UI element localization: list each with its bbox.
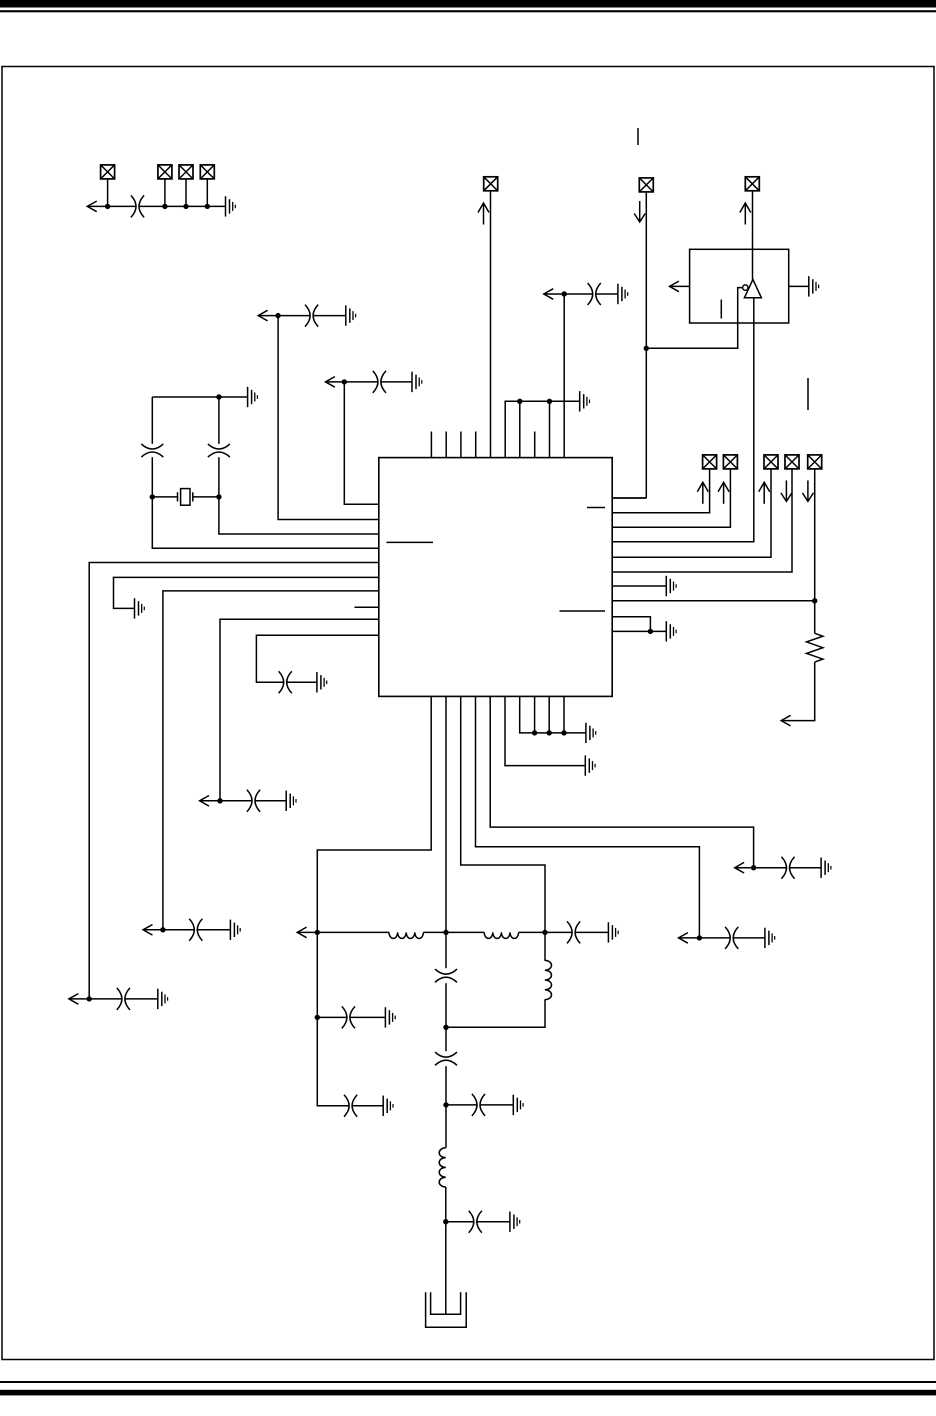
node RF2 bbox=[443, 930, 448, 935]
capacitor C5 bbox=[373, 371, 386, 393]
wire RF2 down b bbox=[445, 983, 447, 1051]
capacitor C6 bbox=[305, 305, 318, 327]
ground G20 bbox=[385, 1007, 395, 1027]
junction row801 bbox=[217, 798, 222, 803]
wire VDD vertical bbox=[490, 191, 492, 458]
capacitor C1 bbox=[131, 195, 144, 217]
arrow row930 bbox=[143, 925, 152, 936]
ground G18 bbox=[765, 928, 775, 948]
wire pin B5 bbox=[490, 696, 753, 867]
arrow row801 bbox=[200, 796, 209, 807]
capacitor C14 bbox=[342, 1006, 355, 1028]
arrow row294 bbox=[544, 289, 553, 300]
wire J2 stub bbox=[164, 179, 166, 207]
capacitor C8 bbox=[189, 919, 202, 941]
capacitor C4 bbox=[208, 444, 230, 457]
pin stub top 1 bbox=[430, 432, 432, 458]
node RF5 bbox=[443, 1102, 448, 1107]
oscillator U2 label stroke bbox=[720, 300, 722, 319]
wire osc ground pin bbox=[789, 285, 809, 287]
capacitor C18 bbox=[472, 1094, 485, 1116]
wire pin T9 riser bbox=[549, 401, 551, 457]
node ANT bbox=[443, 1219, 448, 1224]
pin stub top 2 bbox=[445, 432, 447, 458]
ground G17 bbox=[821, 858, 831, 878]
wire row999 right bbox=[125, 998, 158, 1000]
wire pin R10 bbox=[612, 630, 666, 632]
junction gnd rail 3 bbox=[561, 730, 566, 735]
wire row868 left bbox=[735, 867, 787, 869]
arrow J8 up bbox=[697, 482, 708, 504]
wire row801 right bbox=[255, 800, 286, 802]
wire pin B6 bbox=[505, 696, 585, 765]
connector pin J6 XIN bbox=[639, 178, 653, 192]
pin stub bottom 8 bbox=[534, 696, 536, 733]
arrow J11 down bbox=[781, 480, 792, 501]
junction J4 bbox=[205, 204, 210, 209]
wire crystal left lead bbox=[152, 496, 177, 498]
wire pin R2 bbox=[612, 469, 709, 513]
capacitor C13 bbox=[567, 921, 580, 943]
wire L3 to feed bbox=[445, 1187, 447, 1314]
wire row999 left bbox=[69, 998, 122, 1000]
wire row316 right bbox=[313, 315, 346, 317]
wire rail401 riser bbox=[505, 401, 580, 457]
page footer thick rule bbox=[0, 1390, 936, 1396]
wire pin R5 bbox=[612, 469, 771, 557]
wire pin R7 bbox=[612, 585, 666, 587]
arrow row999 bbox=[69, 994, 78, 1005]
wire row294 left bbox=[544, 293, 593, 295]
wire VBAT row right segment bbox=[139, 205, 225, 207]
junction AVSS bbox=[648, 629, 653, 634]
arrow RF out bbox=[297, 927, 306, 938]
pin stub top 5 bbox=[534, 432, 536, 458]
ground G13 bbox=[666, 576, 676, 596]
page header thin rule bbox=[0, 10, 936, 12]
wire pin R9 bbox=[612, 617, 650, 632]
ground G10 bbox=[230, 920, 240, 940]
connector pin J5 VDD bbox=[484, 177, 498, 191]
junction RF1b bbox=[315, 1015, 320, 1020]
junction gnd rail 2 bbox=[547, 730, 552, 735]
wire pin L10 bbox=[256, 635, 378, 682]
wire XTAL1 to IC bbox=[152, 497, 378, 548]
wire pin L1 bbox=[344, 382, 379, 504]
arrow row868 bbox=[735, 862, 744, 873]
wire row801 left bbox=[200, 800, 252, 802]
wire pin T7 riser bbox=[519, 401, 521, 457]
ground G2 bbox=[809, 276, 819, 296]
wire pin B3 bbox=[461, 696, 545, 932]
junction J1 bbox=[105, 204, 110, 209]
arrow J9 up bbox=[718, 482, 729, 504]
wire osc feed down to IC bbox=[612, 298, 754, 542]
arrow VBAT left bbox=[87, 201, 96, 212]
wire RF2 down a bbox=[445, 932, 447, 968]
wire XIN to IC pin bbox=[612, 497, 646, 499]
wire row682 right bbox=[287, 681, 317, 683]
pin stub top 3 bbox=[460, 432, 462, 458]
wire row1105 right bbox=[446, 1104, 477, 1106]
junction row316 bbox=[275, 313, 280, 318]
wire pin L5 bbox=[89, 563, 379, 999]
arrow CLKOUT up bbox=[740, 203, 751, 225]
arrow J10 up bbox=[759, 482, 770, 504]
wire pin L6 bbox=[114, 577, 379, 608]
arrow row938 bbox=[679, 933, 688, 944]
arrow RBIAS out bbox=[781, 715, 790, 726]
inductor L4 bbox=[545, 960, 552, 999]
ground G15 bbox=[586, 723, 596, 743]
arrow row382 bbox=[326, 377, 335, 388]
wire row382 right bbox=[381, 381, 412, 383]
wire pin R6 bbox=[612, 469, 792, 572]
junction row938 bbox=[697, 935, 702, 940]
pin stub bottom 10 bbox=[563, 696, 565, 733]
wire pin R8 bbox=[612, 600, 815, 602]
node XTAL2 bbox=[216, 494, 221, 499]
connector pin J3 bbox=[179, 165, 193, 179]
IC U1 bbox=[379, 458, 612, 697]
wire row930 left bbox=[143, 929, 194, 931]
capacitor C12 bbox=[725, 927, 738, 949]
capacitor C9 bbox=[247, 790, 260, 812]
ground G23 bbox=[510, 1212, 520, 1232]
connector pin J10 bbox=[764, 455, 778, 469]
wire pin R3 bbox=[612, 469, 730, 527]
ground G12 bbox=[317, 672, 327, 692]
wire row316 left bbox=[258, 315, 310, 317]
wire J12 vertical bbox=[814, 469, 816, 633]
ground G22 bbox=[513, 1095, 523, 1115]
wire osc output up bbox=[752, 191, 754, 280]
wire crystal left upper bbox=[151, 397, 153, 444]
junction row930 bbox=[160, 927, 165, 932]
wire pins B8-B10 rail bbox=[520, 696, 586, 733]
arrow XIN down bbox=[634, 201, 645, 222]
wire RF1 down bbox=[317, 932, 349, 1105]
wire XTAL2 to IC bbox=[219, 497, 379, 534]
wire crystal top rail bbox=[152, 396, 247, 398]
crystal Y1 bbox=[178, 489, 193, 506]
connector pin J12 bbox=[808, 455, 822, 469]
wire crystal right lower bbox=[218, 457, 220, 497]
page header thick rule bbox=[0, 0, 936, 8]
wire pin L7 bbox=[163, 591, 379, 930]
capacitor C15 bbox=[344, 1095, 357, 1117]
junction rail401 a bbox=[517, 399, 522, 404]
inductor L3 bbox=[439, 1148, 446, 1187]
wire row1017 left bbox=[317, 1016, 347, 1018]
page footer thin rule bbox=[0, 1381, 936, 1383]
wire XIN vertical bbox=[645, 192, 647, 498]
wire row382 left bbox=[326, 381, 378, 383]
junction row868 bbox=[751, 865, 756, 870]
wire row930 right bbox=[197, 929, 230, 931]
ground G3 bbox=[618, 284, 628, 304]
ground G6 bbox=[412, 372, 422, 392]
node RBIAS bbox=[812, 598, 817, 603]
capacitor C19 bbox=[469, 1211, 482, 1233]
node XTAL1 bbox=[150, 494, 155, 499]
arrow osc enable bbox=[670, 281, 679, 292]
wire row1106 right bbox=[352, 1105, 383, 1107]
ground G11 bbox=[286, 791, 296, 811]
wire main row a bbox=[297, 931, 389, 933]
wire RF3 down a bbox=[544, 932, 546, 960]
wire VBAT row left segment bbox=[87, 205, 136, 207]
wire main row c bbox=[519, 931, 573, 933]
ground G7 bbox=[346, 305, 356, 325]
connector pin J11 bbox=[785, 455, 799, 469]
node RF1 bbox=[315, 930, 320, 935]
oscillator U2 buffer triangle bbox=[744, 279, 761, 297]
ground G16 bbox=[585, 755, 595, 775]
pin stub bottom 9 bbox=[548, 696, 550, 733]
wire pin T10 vertical bbox=[563, 294, 565, 458]
wire RF2 down c bbox=[445, 1066, 447, 1148]
inductor L2 bbox=[484, 932, 518, 938]
wire pin L9 bbox=[220, 619, 379, 801]
wire row294 right bbox=[596, 293, 618, 295]
wire RF3 down b bbox=[446, 999, 545, 1027]
wire main row d bbox=[575, 931, 608, 933]
oscillator U2 bubble bbox=[743, 285, 748, 290]
resistor R1 bbox=[807, 633, 823, 662]
connector pin J1 bbox=[101, 165, 115, 179]
junction row999 bbox=[87, 996, 92, 1001]
capacitor C16 bbox=[435, 969, 457, 982]
node XIN junction bbox=[644, 346, 649, 351]
arrow J12 down bbox=[802, 480, 813, 501]
wire row1222 right b bbox=[477, 1221, 510, 1223]
connector pin J7 CLKOUT bbox=[745, 177, 759, 191]
capacitor C2 bbox=[588, 283, 601, 305]
junction row294 bbox=[562, 291, 567, 296]
node RF4 bbox=[443, 1025, 448, 1030]
ground G5 bbox=[248, 387, 258, 407]
wire crystal right upper bbox=[218, 397, 220, 444]
wire J4 stub bbox=[206, 179, 208, 207]
wire crystal left lower bbox=[151, 457, 153, 497]
ground G4 bbox=[580, 391, 590, 411]
wire pin R1 to XIN node bbox=[612, 497, 646, 499]
arrow row316 bbox=[258, 310, 267, 321]
wire row868 right bbox=[790, 867, 822, 869]
oscillator U2 box bbox=[690, 249, 789, 323]
ground G19 bbox=[608, 922, 618, 942]
wire J1 stub bbox=[107, 179, 109, 207]
junction rail401 b bbox=[547, 399, 552, 404]
junction J3 bbox=[183, 204, 188, 209]
junction gnd rail 1 bbox=[532, 730, 537, 735]
label stroke near node CLK bbox=[637, 128, 639, 145]
node RF3 bbox=[542, 930, 547, 935]
junction row382 bbox=[342, 379, 347, 384]
wire osc enable left pin bbox=[670, 285, 690, 287]
wire J3 stub bbox=[185, 179, 187, 207]
capacitor C7 bbox=[117, 988, 130, 1010]
wire pin L2 bbox=[278, 316, 379, 520]
ground G21 bbox=[383, 1096, 393, 1116]
wire row938 left bbox=[679, 937, 731, 939]
ground G8 bbox=[158, 989, 168, 1009]
junction J2 bbox=[162, 204, 167, 209]
IC U1 label stroke c bbox=[560, 610, 606, 612]
connector pin J2 bbox=[158, 165, 172, 179]
connector pin J8 bbox=[703, 455, 717, 469]
capacitor C11 bbox=[781, 857, 794, 879]
IC U1 label stroke b bbox=[587, 507, 605, 509]
inductor L1 bbox=[389, 932, 423, 938]
wire R1 bottom bbox=[781, 662, 815, 721]
ground G1 bbox=[226, 196, 236, 216]
wire pin B2 bbox=[445, 696, 447, 932]
connector pin J9 bbox=[723, 455, 737, 469]
pin stub L8 bbox=[355, 606, 379, 608]
wire main row b bbox=[423, 931, 484, 933]
capacitor C3 bbox=[141, 444, 163, 457]
wire crystal right lead bbox=[193, 496, 219, 498]
wire pin B4 bbox=[476, 696, 700, 938]
wire row938 right bbox=[733, 937, 765, 939]
wire row1222 right bbox=[446, 1221, 474, 1223]
connector pin J4 bbox=[200, 165, 214, 179]
wire pin B1 bbox=[317, 696, 431, 932]
wire osc input bbox=[646, 288, 742, 349]
pin stub top 4 bbox=[475, 432, 477, 458]
ground G9 bbox=[135, 598, 145, 618]
label stroke near right connectors bbox=[807, 378, 809, 410]
capacitor C10 bbox=[279, 671, 292, 693]
wire row1105 right b bbox=[480, 1104, 513, 1106]
antenna AE1 bbox=[426, 1292, 467, 1327]
IC U1 label stroke a bbox=[387, 541, 434, 543]
ground G14 bbox=[666, 621, 676, 641]
capacitor C17 bbox=[435, 1052, 457, 1065]
junction crystal rail bbox=[216, 394, 221, 399]
wire row1017 right bbox=[350, 1016, 385, 1018]
arrow VDD up bbox=[478, 203, 489, 225]
